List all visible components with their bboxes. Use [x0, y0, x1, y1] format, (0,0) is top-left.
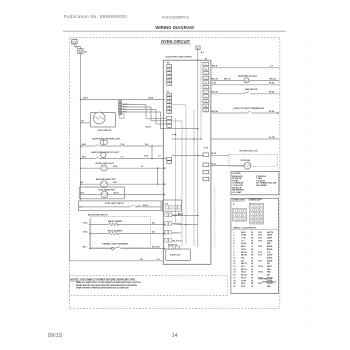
- svg-text:12: 12: [233, 263, 235, 265]
- svg-text:GN GREEN: GN GREEN: [256, 185, 267, 187]
- svg-text:CONV FAN MOTOR: CONV FAN MOTOR: [98, 189, 115, 192]
- svg-text:18: 18: [251, 240, 253, 242]
- svg-text:18: 18: [251, 275, 253, 277]
- svg-text:BU-16: BU-16: [146, 127, 151, 129]
- svg-text:COLORS: COLORS: [232, 173, 241, 175]
- svg-text:9: 9: [233, 255, 234, 257]
- svg-text:18: 18: [251, 249, 253, 251]
- svg-text:W-2A: W-2A: [241, 242, 246, 245]
- svg-text:P1-2: P1-2: [258, 252, 262, 254]
- svg-text:W-25: W-25: [113, 182, 117, 184]
- svg-text:09/15: 09/15: [48, 333, 63, 339]
- svg-text:8: 8: [256, 214, 257, 216]
- svg-text:B-2: B-2: [241, 260, 244, 262]
- svg-text:2: 2: [256, 206, 257, 208]
- svg-text:P2-1: P2-1: [258, 283, 262, 285]
- svg-text:18: 18: [251, 286, 253, 288]
- svg-text:BK-37 P-27: BK-37 P-27: [173, 241, 182, 243]
- svg-text:(DOOR AJAR SWITCH): (DOOR AJAR SWITCH): [88, 213, 108, 216]
- svg-text:17: 17: [233, 277, 235, 279]
- svg-text:BK-18: BK-18: [270, 78, 277, 80]
- svg-text:2: 2: [233, 235, 234, 237]
- svg-text:1: 1: [235, 211, 236, 213]
- svg-text:W-25: W-25: [241, 249, 245, 251]
- svg-text:18: 18: [251, 238, 253, 240]
- svg-text:Y-7A: Y-7A: [241, 237, 246, 240]
- svg-text:NOTICE: DISCONNECT POWER BEFOR: NOTICE: DISCONNECT POWER BEFORE SERVICIN…: [70, 279, 136, 281]
- svg-text:B-7: B-7: [82, 121, 85, 123]
- svg-text:ELECTRONIC OVEN CONTROL: ELECTRONIC OVEN CONTROL: [166, 56, 194, 58]
- svg-text:13: 13: [233, 266, 235, 268]
- svg-text:W-2B: W-2B: [149, 97, 154, 99]
- svg-text:OVEN TOP LIGHT THERMOSTAT: OVEN TOP LIGHT THERMOSTAT: [233, 107, 265, 110]
- svg-text:NEUT: NEUT: [267, 266, 273, 268]
- svg-text:P8-2: P8-2: [258, 235, 262, 237]
- svg-text:T-7: T-7: [158, 156, 161, 158]
- svg-text:6: 6: [233, 246, 234, 248]
- svg-text:LATCH MOTOR: LATCH MOTOR: [97, 129, 111, 132]
- svg-text:9: 9: [205, 101, 206, 103]
- svg-text:BROILER FAN MOTOR: BROILER FAN MOTOR: [96, 178, 116, 181]
- svg-text:11: 11: [233, 260, 235, 262]
- svg-text:5: 5: [256, 210, 257, 212]
- svg-text:BK-8: BK-8: [212, 66, 218, 68]
- svg-text:18: 18: [251, 272, 253, 274]
- svg-text:Y-4: Y-4: [141, 165, 144, 168]
- svg-text:16: 16: [251, 263, 253, 265]
- svg-text:BK-29: BK-29: [178, 214, 183, 216]
- svg-text:GY/P USED ON: GY/P USED ON: [258, 279, 272, 281]
- svg-text:BU-34: BU-34: [212, 110, 219, 113]
- svg-text:B-6: B-6: [157, 247, 160, 249]
- svg-text:P9-1: P9-1: [258, 238, 262, 240]
- svg-text:BK-13: BK-13: [241, 263, 246, 265]
- svg-text:Publication No. 5995598000: Publication No. 5995598000: [64, 14, 127, 19]
- svg-text:18: 18: [251, 269, 253, 271]
- svg-text:Y-7: Y-7: [241, 240, 244, 242]
- svg-text:18: 18: [251, 255, 253, 257]
- svg-text:BK-5: BK-5: [84, 232, 88, 234]
- svg-text:18: 18: [251, 280, 253, 282]
- svg-text:P10-1: P10-1: [258, 266, 263, 268]
- svg-text:LIGHT: LIGHT: [267, 255, 274, 257]
- svg-text:10: 10: [252, 218, 254, 220]
- svg-text:BAKE: BAKE: [267, 245, 273, 248]
- svg-text:19: 19: [233, 283, 235, 285]
- svg-text:VARIABLE FAN: VARIABLE FAN: [238, 74, 257, 78]
- svg-text:BK-35: BK-35: [143, 205, 148, 207]
- svg-text:Y-7: Y-7: [121, 157, 124, 159]
- svg-text:7: 7: [205, 92, 206, 94]
- svg-text:DOOR LIGHT SWITCH: DOOR LIGHT SWITCH: [105, 203, 125, 205]
- svg-text:LAMP: LAMP: [267, 237, 273, 240]
- svg-text:VERIFY PROPER OPERATION AFTER: VERIFY PROPER OPERATION AFTER SERVICING …: [76, 287, 130, 290]
- svg-text:13: 13: [252, 222, 254, 224]
- svg-text:18: 18: [251, 252, 253, 254]
- svg-text:W-34: W-34: [269, 110, 275, 113]
- svg-text:P-24: P-24: [165, 202, 169, 205]
- svg-text:6: 6: [205, 87, 206, 89]
- svg-text:B-31: B-31: [241, 286, 245, 288]
- svg-text:W-6: W-6: [145, 144, 148, 146]
- svg-text:BK-35: BK-35: [241, 255, 246, 257]
- svg-text:SOME MODELS: SOME MODELS: [262, 281, 277, 283]
- svg-text:DOOR FAN: DOOR FAN: [241, 159, 251, 162]
- svg-text:W-24: W-24: [269, 91, 275, 94]
- svg-text:18: 18: [251, 277, 253, 279]
- svg-text:BK-22: BK-22: [114, 192, 119, 194]
- svg-text:BU-24: BU-24: [241, 274, 247, 277]
- svg-text:P10-3: P10-3: [258, 272, 263, 274]
- svg-text:ELEM: ELEM: [267, 260, 273, 262]
- svg-text:W-7B: W-7B: [241, 280, 246, 282]
- svg-text:Y-7A: Y-7A: [120, 143, 125, 146]
- svg-text:BK-18: BK-18: [224, 78, 231, 80]
- svg-text:18: 18: [251, 243, 253, 245]
- svg-text:ELEM: ELEM: [267, 257, 273, 259]
- svg-text:BROIL ELEMENT: BROIL ELEMENT: [108, 230, 124, 232]
- svg-text:THERMAL CIRCUIT BREAKER: THERMAL CIRCUIT BREAKER: [102, 242, 129, 245]
- svg-text:15: 15: [233, 272, 235, 274]
- svg-text:W-7B: W-7B: [269, 137, 275, 139]
- svg-text:BK-2: BK-2: [82, 144, 86, 146]
- svg-text:B-4: B-4: [152, 221, 155, 224]
- svg-text:P1-3: P1-3: [258, 255, 262, 257]
- svg-text:18: 18: [233, 280, 235, 282]
- svg-text:BROIL: BROIL: [267, 249, 274, 251]
- svg-text:W-36: W-36: [144, 156, 148, 158]
- svg-text:GY GRAY: GY GRAY: [232, 191, 242, 194]
- svg-text:Y-20: Y-20: [212, 83, 217, 85]
- svg-text:3: 3: [260, 206, 261, 208]
- svg-text:FAN: FAN: [267, 242, 271, 245]
- svg-text:LABEL ALL WIRES PRIOR TO DISCO: LABEL ALL WIRES PRIOR TO DISCONNECTION W…: [76, 281, 142, 284]
- svg-text:P8-1: P8-1: [258, 232, 262, 234]
- svg-text:18: 18: [251, 232, 253, 234]
- svg-text:OVEN: OVEN: [267, 240, 273, 242]
- svg-text:BK-1: BK-1: [83, 247, 87, 249]
- svg-text:FAN: FAN: [267, 268, 271, 271]
- svg-text:BK-8: BK-8: [241, 232, 245, 234]
- svg-text:N-1: N-1: [157, 259, 160, 261]
- svg-text:BU-24: BU-24: [212, 91, 219, 94]
- svg-text:W-2B: W-2B: [241, 235, 246, 237]
- svg-text:P9-2: P9-2: [258, 240, 262, 242]
- svg-text:WIRING ERRORS CAN CAUSE IMPROP: WIRING ERRORS CAN CAUSE IMPROPER AND DAN…: [76, 284, 138, 287]
- svg-text:BK-2: BK-2: [241, 246, 245, 248]
- svg-text:B-31: B-31: [212, 163, 218, 165]
- svg-text:WIRE NO. COLOR FROM TO: WIRE NO. COLOR FROM TO: [233, 228, 256, 230]
- svg-text:BK-18: BK-18: [241, 269, 246, 271]
- svg-text:14: 14: [172, 333, 178, 339]
- svg-text:FAN: FAN: [267, 271, 271, 274]
- svg-text:5: 5: [233, 243, 234, 245]
- svg-text:16: 16: [233, 275, 235, 277]
- svg-text:WIRING DIAGRAM: WIRING DIAGRAM: [155, 25, 194, 30]
- svg-text:12: 12: [260, 218, 262, 220]
- svg-text:BK-34 P-26: BK-34 P-26: [168, 243, 177, 246]
- svg-text:8: 8: [205, 96, 206, 98]
- svg-text:3: 3: [205, 73, 206, 75]
- svg-text:7: 7: [235, 219, 236, 221]
- svg-text:W-2: W-2: [140, 259, 143, 261]
- svg-text:B-30: B-30: [241, 283, 245, 285]
- svg-text:18: 18: [251, 283, 253, 285]
- svg-text:W-20: W-20: [269, 83, 275, 85]
- svg-text:B-30: B-30: [212, 153, 218, 155]
- svg-text:7: 7: [233, 249, 234, 251]
- svg-text:BK-2: BK-2: [82, 157, 86, 159]
- svg-text:LATCH: LATCH: [267, 231, 274, 234]
- svg-text:P1-5: P1-5: [258, 260, 262, 262]
- svg-text:20: 20: [233, 286, 235, 288]
- svg-text:DOOR LOCK: DOOR LOCK: [170, 255, 181, 257]
- svg-text:BK-18: BK-18: [212, 78, 219, 80]
- svg-text:W-20: W-20: [241, 272, 245, 274]
- svg-text:6: 6: [260, 210, 261, 212]
- svg-text:BK-8: BK-8: [84, 97, 88, 99]
- svg-text:11: 11: [256, 218, 258, 220]
- svg-text:3: 3: [233, 238, 234, 240]
- svg-text:W-2: W-2: [241, 266, 244, 268]
- svg-text:B-2: B-2: [152, 232, 155, 234]
- svg-text:SW: SW: [267, 275, 270, 277]
- svg-text:BK-6: BK-6: [84, 222, 88, 224]
- svg-text:9: 9: [260, 214, 261, 216]
- svg-text:BAKE ELEMENT: BAKE ELEMENT: [108, 220, 123, 223]
- svg-text:TCO: TCO: [267, 252, 272, 254]
- svg-text:10: 10: [233, 257, 235, 259]
- svg-text:2: 2: [205, 69, 206, 71]
- svg-text:11: 11: [205, 110, 207, 112]
- svg-text:16: 16: [251, 246, 253, 248]
- svg-text:18: 18: [251, 235, 253, 237]
- svg-text:OVEN CIRCUIT: OVEN CIRCUIT: [161, 39, 191, 44]
- svg-text:FAN: FAN: [267, 285, 271, 288]
- svg-text:FGDS3065PFG: FGDS3065PFG: [162, 15, 189, 19]
- svg-text:10: 10: [205, 106, 207, 108]
- svg-text:5: 5: [205, 83, 206, 85]
- svg-text:LAMP: LAMP: [267, 234, 273, 237]
- svg-text:FAN MOTOR: FAN MOTOR: [245, 88, 258, 91]
- svg-text:BK-22: BK-22: [241, 252, 246, 254]
- svg-text:15: 15: [260, 222, 262, 224]
- svg-text:W-2A: W-2A: [113, 165, 118, 168]
- svg-text:W-33 P-27: W-33 P-27: [173, 232, 181, 234]
- svg-text:W-9: W-9: [81, 192, 84, 194]
- svg-text:MOTOR DOOR LOCK: MOTOR DOOR LOCK: [240, 150, 259, 152]
- svg-text:1: 1: [205, 64, 206, 66]
- svg-text:DOOR: DOOR: [267, 283, 273, 285]
- svg-text:8: 8: [233, 252, 234, 254]
- svg-text:1: 1: [233, 232, 234, 234]
